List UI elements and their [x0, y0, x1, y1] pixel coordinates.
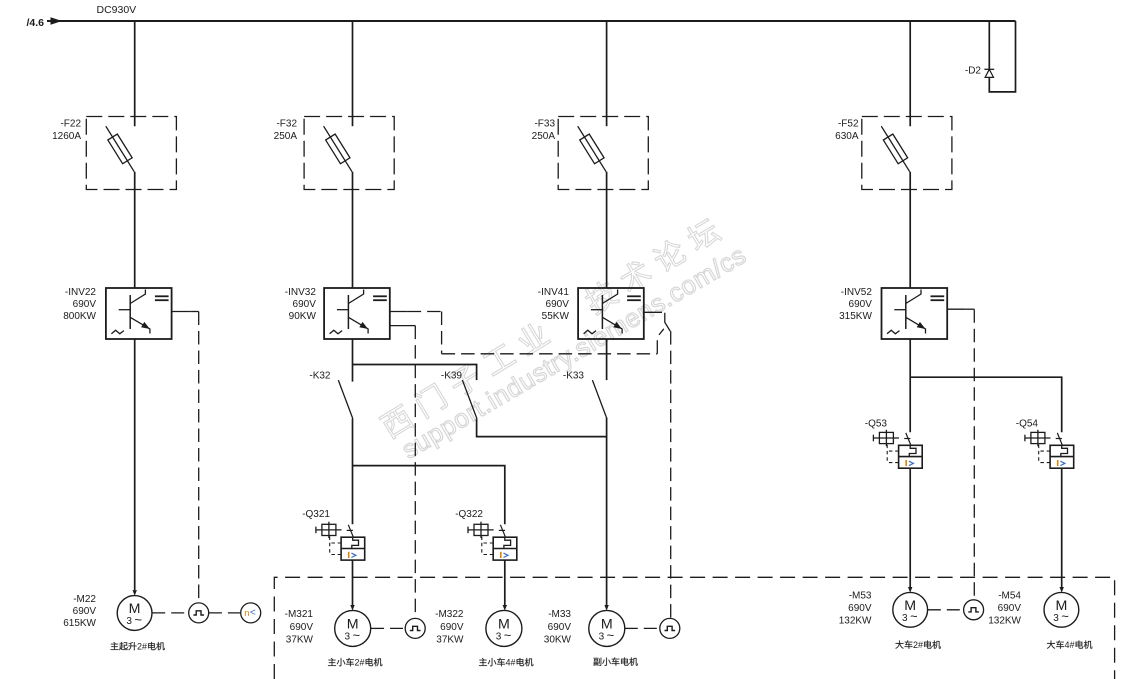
svg-text:3: 3 [599, 631, 605, 642]
wire INV32 encoder feedback lower [390, 325, 411, 327]
svg-text:-INV32: -INV32 [285, 287, 317, 298]
motor M33 [589, 610, 625, 646]
wire bus to F33 [606, 21, 608, 126]
wire INV52 to Q53 [909, 339, 911, 432]
svg-text:n: n [244, 608, 249, 619]
svg-text:~: ~ [607, 627, 615, 642]
dashed link encoder to n< [209, 612, 241, 614]
svg-text:315KW: 315KW [839, 311, 872, 322]
watermark line 1 [378, 215, 723, 440]
arrow into M322 [503, 605, 507, 611]
speed monitor n< [241, 603, 261, 623]
svg-text:-M54: -M54 [998, 591, 1021, 602]
breaker Q54 [1025, 430, 1074, 468]
diode D2 [984, 69, 994, 77]
wire bus to F22 [134, 21, 136, 126]
wire F52 to INV52 [909, 172, 911, 288]
svg-text:690V: 690V [293, 299, 317, 310]
fuse F32 box [304, 117, 394, 190]
wire bus to F32 [352, 21, 354, 126]
svg-text:-M53: -M53 [849, 591, 872, 602]
label motor M33 chinese [594, 657, 638, 665]
svg-text:690V: 690V [998, 603, 1022, 614]
svg-text:/4.6: /4.6 [27, 17, 45, 29]
svg-text:~: ~ [504, 627, 512, 642]
svg-text:2#: 2# [913, 640, 923, 650]
encoder M53 [964, 600, 984, 620]
svg-text:-Q321: -Q321 [302, 509, 330, 520]
wire INV41 encoder feedback [644, 311, 662, 313]
encoder M33 [660, 618, 680, 638]
inverter INV41 [578, 288, 644, 339]
encoder M22 [189, 603, 209, 623]
svg-text:~: ~ [1061, 609, 1069, 624]
svg-text:690V: 690V [546, 299, 570, 310]
wire Q321 to M321 [352, 560, 354, 605]
svg-text:-F52: -F52 [838, 119, 859, 130]
motor M53 [893, 592, 928, 627]
wire INV52 encoder feedback [947, 308, 966, 310]
wire K39 to M33 junction [477, 418, 607, 437]
fuse F33 box [558, 117, 648, 190]
wire tee to Q54 [910, 377, 1061, 432]
dashed link M33 to encoder [625, 627, 660, 629]
svg-text:30KW: 30KW [544, 634, 572, 645]
inverter INV22 [106, 288, 172, 339]
svg-text:250A: 250A [532, 131, 556, 142]
svg-text:-M322: -M322 [435, 609, 464, 620]
svg-text:690V: 690V [73, 299, 97, 310]
inverter INV32 [324, 288, 390, 339]
svg-text:-M22: -M22 [73, 594, 96, 605]
fuse F33 [580, 134, 604, 164]
fuse F52 box [862, 117, 952, 190]
arrow into M53 [908, 587, 912, 593]
svg-text:-M33: -M33 [548, 609, 571, 620]
dashed enclosure bottom group [274, 577, 1114, 679]
svg-text:615KW: 615KW [63, 618, 96, 629]
arrow into bus [51, 17, 63, 25]
svg-text:3: 3 [126, 616, 132, 627]
contactor K39 [462, 380, 477, 419]
svg-text:~: ~ [910, 609, 918, 624]
label motor M54 chinese [1047, 640, 1092, 650]
contactor K33 [592, 380, 607, 419]
wire INV32 encoder feedback upper [390, 311, 408, 313]
wire bus to D2 [988, 21, 990, 69]
arrow into M22 [133, 590, 137, 596]
inverter INV52 [882, 288, 948, 339]
svg-text:630A: 630A [835, 131, 859, 142]
motor M322 [486, 610, 522, 646]
wire DC bus [47, 20, 1016, 22]
wire Q54 to M54 [1061, 468, 1063, 587]
svg-text:800KW: 800KW [63, 311, 96, 322]
svg-text:690V: 690V [440, 622, 464, 633]
encoder M321 [405, 618, 425, 638]
breaker Q53 [873, 430, 922, 468]
svg-text:690V: 690V [849, 299, 873, 310]
svg-text:-F33: -F33 [534, 119, 555, 130]
fuse F32 [326, 134, 350, 164]
wire bus to F52 [909, 21, 911, 126]
wire INV32 to K32 [352, 339, 354, 382]
dashed link M53 to encoder [928, 609, 964, 611]
svg-text:-M321: -M321 [285, 609, 314, 620]
svg-text:3: 3 [345, 631, 351, 642]
dashed link M321 to encoder [371, 627, 405, 629]
svg-text:37KW: 37KW [436, 634, 464, 645]
fuse F22 box [86, 117, 176, 190]
svg-text:2#: 2# [137, 642, 147, 652]
svg-text:250A: 250A [274, 131, 298, 142]
svg-text:690V: 690V [548, 622, 572, 633]
wire junction to M33 [606, 437, 608, 606]
svg-text:<: < [250, 608, 256, 619]
label motor M321 chinese [328, 658, 382, 668]
wire INV41 to K33 [606, 339, 608, 380]
svg-text:132KW: 132KW [988, 615, 1021, 626]
svg-text:690V: 690V [73, 606, 97, 617]
wire INV22 encoder feedback [172, 311, 191, 313]
arrow into M54 [1060, 587, 1064, 593]
svg-text:2#: 2# [355, 658, 365, 668]
svg-text:-Q54: -Q54 [1016, 419, 1039, 430]
svg-text:-INV41: -INV41 [538, 287, 570, 298]
svg-text:1260A: 1260A [52, 131, 81, 142]
svg-text:-Q53: -Q53 [865, 419, 888, 430]
breaker Q321 [316, 522, 365, 560]
fuse F52 [883, 134, 907, 164]
wire Q53 to M53 [909, 468, 911, 587]
wire F33 to INV41 [606, 172, 608, 288]
svg-text:4#: 4# [1065, 640, 1075, 650]
svg-text:3: 3 [902, 613, 908, 624]
svg-text:132KW: 132KW [839, 615, 872, 626]
svg-text:90KW: 90KW [289, 311, 317, 322]
svg-text:~: ~ [134, 612, 142, 627]
svg-text:-F32: -F32 [276, 119, 297, 130]
wire INV22 to M22 [134, 339, 136, 590]
wire K32 to Q321 [352, 419, 354, 525]
svg-text:4#: 4# [506, 658, 516, 668]
svg-text:-K33: -K33 [563, 371, 585, 382]
svg-text:55KW: 55KW [542, 311, 570, 322]
svg-text:DC930V: DC930V [97, 4, 137, 16]
svg-text:-K32: -K32 [309, 371, 331, 382]
svg-text:-F22: -F22 [60, 119, 81, 130]
wire Q322 to M322 [504, 560, 506, 605]
svg-text:-D2: -D2 [965, 66, 982, 77]
wire junction to Q322 branch [353, 466, 505, 525]
svg-text:-INV52: -INV52 [841, 287, 873, 298]
wire F32 to INV32 [352, 172, 354, 288]
wire F22 to INV22 [134, 172, 136, 288]
svg-text:-K39: -K39 [441, 371, 463, 382]
motor M22 [117, 596, 152, 631]
label motor M22 chinese [111, 642, 165, 652]
arrow into M33 [604, 605, 608, 611]
motor M54 [1044, 592, 1079, 627]
svg-text:690V: 690V [848, 603, 872, 614]
wire tee to K39 [353, 365, 477, 381]
svg-text:3: 3 [496, 631, 502, 642]
svg-text:-INV22: -INV22 [65, 287, 97, 298]
label motor M53 chinese [895, 640, 940, 650]
fuse F22 [108, 134, 132, 164]
label motor M322 chinese [479, 658, 533, 668]
svg-text:-Q322: -Q322 [455, 509, 483, 520]
svg-text:~: ~ [353, 627, 361, 642]
breaker Q322 [468, 522, 517, 560]
arrow into M321 [350, 605, 354, 611]
svg-text:3: 3 [1053, 613, 1059, 624]
contactor K32 [338, 380, 353, 419]
dashed link M22 to encoder [152, 612, 188, 614]
wire D2 loop [989, 21, 1015, 92]
svg-text:690V: 690V [290, 622, 314, 633]
motor M321 [335, 610, 371, 646]
svg-text:37KW: 37KW [286, 634, 314, 645]
